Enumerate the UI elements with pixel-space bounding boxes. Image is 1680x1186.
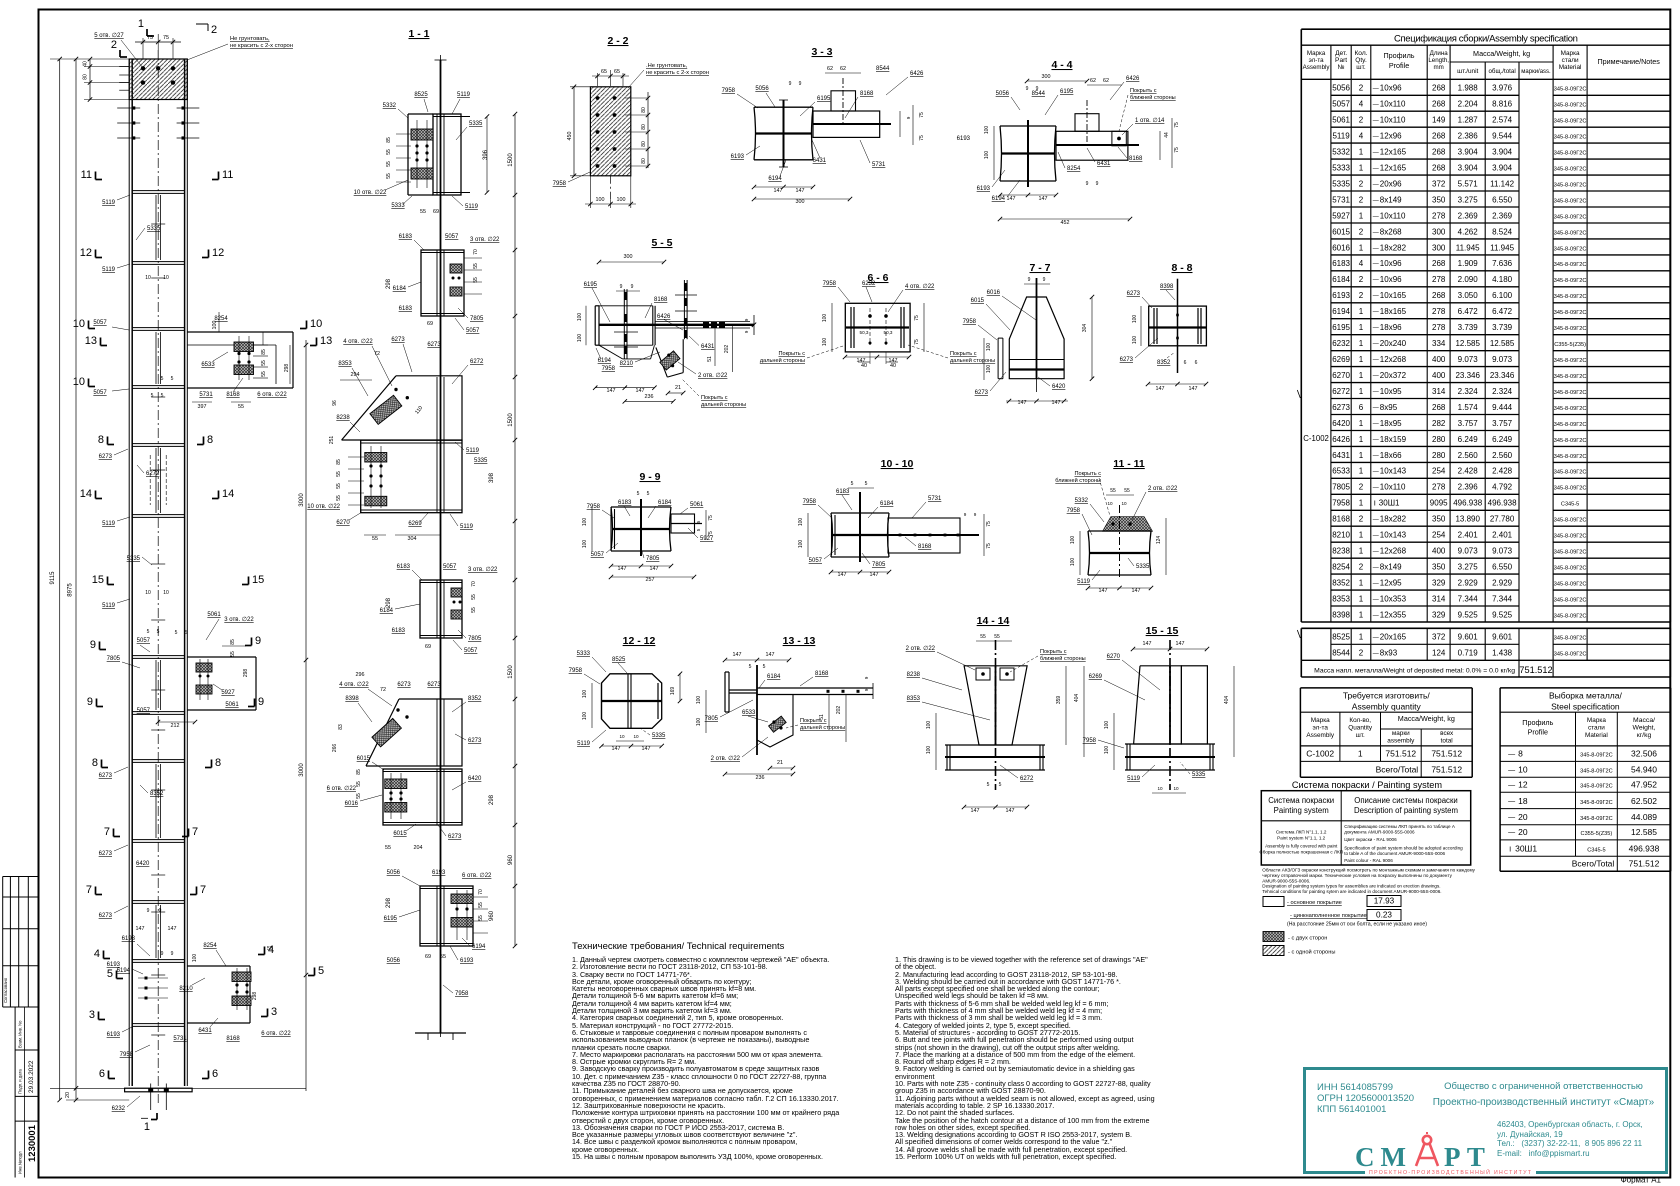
svg-text:С345-5: С345-5 [1587, 847, 1605, 853]
svg-text:30Ш1: 30Ш1 [1515, 843, 1537, 853]
svg-text:—: — [1373, 389, 1379, 395]
svg-text:15: 15 [92, 574, 104, 586]
svg-text:Марка: Марка [1587, 717, 1606, 724]
svg-text:7958: 7958 [823, 281, 837, 287]
svg-text:assembly: assembly [1387, 738, 1415, 745]
svg-text:7958: 7958 [120, 1052, 134, 1058]
svg-text:13.890: 13.890 [1455, 515, 1480, 524]
svg-text:40: 40 [83, 61, 89, 67]
svg-text:дальней стороны: дальней стороны [950, 357, 995, 364]
svg-text:2.401: 2.401 [1458, 531, 1479, 540]
svg-text:3.739: 3.739 [1492, 323, 1513, 332]
svg-text:5119: 5119 [457, 92, 471, 98]
svg-text:1: 1 [1358, 749, 1363, 759]
svg-text:Part: Part [1335, 57, 1347, 64]
svg-text:8168: 8168 [226, 392, 240, 398]
svg-text:96: 96 [332, 400, 338, 406]
svg-text:5057: 5057 [443, 564, 457, 570]
svg-text:147: 147 [1132, 588, 1141, 594]
svg-text:6193: 6193 [122, 936, 136, 942]
svg-text:—: — [1373, 102, 1379, 108]
svg-text:18х165: 18х165 [1380, 307, 1407, 316]
svg-text:12: 12 [212, 247, 224, 259]
svg-text:3.757: 3.757 [1492, 419, 1513, 428]
svg-text:6015: 6015 [1332, 227, 1350, 236]
svg-text:—: — [1373, 278, 1379, 284]
svg-text:6184: 6184 [393, 286, 407, 292]
svg-text:345-8-09Г2С: 345-8-09Г2С [1554, 326, 1587, 332]
svg-text:147: 147 [796, 188, 805, 194]
svg-text:5: 5 [987, 782, 990, 788]
svg-text:6270: 6270 [1107, 654, 1121, 660]
svg-text:345-8-09Г2С: 345-8-09Г2С [1554, 613, 1587, 619]
svg-text:2.386: 2.386 [1458, 132, 1479, 141]
svg-text:Масса/Weight, kg: Масса/Weight, kg [1398, 714, 1455, 723]
svg-text:6193: 6193 [957, 136, 971, 142]
svg-text:55: 55 [372, 536, 378, 542]
svg-text:75: 75 [708, 515, 714, 521]
svg-text:75: 75 [708, 531, 714, 537]
svg-text:9: 9 [1043, 277, 1046, 283]
svg-text:2.428: 2.428 [1492, 467, 1513, 476]
svg-text:- цинкнаполненное покрытие: - цинкнаполненное покрытие [1290, 913, 1367, 919]
svg-text:169: 169 [670, 687, 676, 696]
svg-text:10: 10 [619, 734, 625, 739]
svg-text:9.444: 9.444 [1492, 403, 1513, 412]
svg-text:дальней стороны: дальней стороны [701, 401, 746, 408]
svg-text:75: 75 [919, 112, 925, 118]
svg-text:345-8-09Г2С: 345-8-09Г2С [1554, 119, 1587, 125]
svg-text:1: 1 [1359, 435, 1364, 444]
svg-text:6426: 6426 [910, 71, 924, 77]
svg-text:1: 1 [1359, 467, 1364, 476]
svg-text:1: 1 [1359, 531, 1364, 540]
svg-text:65: 65 [601, 69, 607, 75]
svg-text:147: 147 [733, 652, 742, 658]
svg-text:5057: 5057 [137, 708, 151, 714]
svg-text:5057: 5057 [445, 234, 459, 240]
svg-text:236: 236 [645, 394, 654, 400]
svg-text:6431: 6431 [1332, 451, 1350, 460]
svg-text:266: 266 [332, 744, 338, 753]
svg-text:8254: 8254 [1332, 563, 1350, 572]
svg-text:294: 294 [351, 372, 360, 378]
svg-text:6183: 6183 [399, 306, 413, 312]
svg-text:10х110: 10х110 [1380, 483, 1406, 492]
svg-text:8544: 8544 [876, 66, 890, 72]
svg-text:3.976: 3.976 [1492, 84, 1513, 93]
svg-text:345-8-09Г2С: 345-8-09Г2С [1580, 753, 1613, 759]
svg-text:11: 11 [222, 169, 233, 181]
svg-text:372: 372 [1432, 179, 1446, 188]
svg-text:85: 85 [336, 459, 342, 465]
svg-text:6.249: 6.249 [1492, 435, 1513, 444]
svg-text:3.904: 3.904 [1458, 164, 1479, 173]
svg-text:1: 1 [138, 18, 144, 30]
svg-text:—: — [1373, 485, 1379, 491]
svg-text:8398: 8398 [345, 696, 359, 702]
svg-text:чертежу отправочной марки. Тех: чертежу отправочной марки. Технические у… [1262, 872, 1452, 878]
svg-text:6183: 6183 [1332, 259, 1350, 268]
svg-text:5332: 5332 [1075, 498, 1089, 504]
svg-text:8: 8 [215, 757, 221, 769]
svg-text:3.275: 3.275 [1458, 563, 1479, 572]
svg-text:5: 5 [161, 376, 164, 382]
svg-text:6184: 6184 [767, 674, 781, 680]
svg-text:4.180: 4.180 [1492, 275, 1513, 284]
svg-text:55: 55 [420, 209, 426, 215]
svg-text:75: 75 [919, 135, 925, 141]
svg-text:5057: 5057 [464, 648, 478, 654]
svg-text:80: 80 [641, 124, 647, 130]
svg-text:Tehnical conditions for painti: Tehnical conditions for painting sytem a… [1262, 889, 1441, 894]
svg-text:6272: 6272 [1020, 776, 1034, 782]
svg-text:450: 450 [567, 132, 573, 141]
svg-text:Покрыть с: Покрыть с [950, 351, 977, 357]
svg-text:—: — [1508, 815, 1515, 822]
svg-text:Согласовано: Согласовано [3, 977, 8, 1003]
svg-text:общ./total: общ./total [1488, 68, 1515, 75]
svg-text:345-8-09Г2С: 345-8-09Г2С [1554, 374, 1587, 380]
svg-text:280: 280 [1432, 435, 1446, 444]
svg-text:Описание системы покраски: Описание системы покраски [1354, 796, 1457, 805]
svg-text:55: 55 [336, 483, 342, 489]
svg-text:8168: 8168 [815, 671, 829, 677]
svg-text:5: 5 [175, 630, 178, 636]
svg-text:236: 236 [756, 775, 765, 781]
svg-text:6183: 6183 [397, 564, 411, 570]
svg-text:9.601: 9.601 [1458, 633, 1479, 642]
svg-text:5119: 5119 [460, 524, 474, 530]
svg-text:1: 1 [1359, 164, 1364, 173]
svg-text:8х93: 8х93 [1380, 649, 1398, 658]
svg-text:Paint system N°1.1, 1.2: Paint system N°1.1, 1.2 [1277, 836, 1325, 841]
svg-text:5: 5 [185, 630, 188, 636]
svg-text:12х95: 12х95 [1380, 579, 1402, 588]
svg-text:Система покраски: Система покраски [1268, 796, 1334, 805]
svg-text:Длина: Длина [1430, 50, 1449, 57]
svg-text:400: 400 [1432, 355, 1446, 364]
svg-text:6194: 6194 [472, 944, 486, 950]
svg-text:6193: 6193 [107, 1032, 121, 1038]
svg-text:6.249: 6.249 [1458, 435, 1479, 444]
svg-text:10х165: 10х165 [1380, 291, 1407, 300]
svg-text:Примечание/Notes: Примечание/Notes [1598, 57, 1661, 66]
svg-text:3.904: 3.904 [1458, 148, 1479, 157]
svg-text:212: 212 [171, 723, 180, 729]
svg-text:6426: 6426 [1126, 76, 1140, 82]
svg-text:5: 5 [318, 965, 324, 977]
svg-text:—: — [1373, 565, 1379, 571]
svg-text:100: 100 [582, 712, 588, 721]
svg-text:5335: 5335 [1192, 772, 1206, 778]
svg-text:1500: 1500 [508, 153, 514, 167]
svg-text:55: 55 [478, 902, 484, 908]
svg-text:251: 251 [329, 436, 335, 445]
svg-text:8352: 8352 [468, 696, 482, 702]
svg-text:6273: 6273 [99, 851, 113, 857]
svg-text:9: 9 [147, 908, 150, 914]
svg-text:1230001: 1230001 [27, 1124, 38, 1162]
svg-text:5332: 5332 [1332, 148, 1350, 157]
svg-text:7958: 7958 [587, 504, 601, 510]
svg-text:75: 75 [914, 315, 920, 321]
svg-text:2: 2 [1359, 84, 1364, 93]
svg-text:298: 298 [489, 794, 495, 805]
svg-text:6533: 6533 [1332, 467, 1350, 476]
svg-text:397: 397 [198, 404, 207, 410]
svg-text:2: 2 [1359, 227, 1364, 236]
svg-text:15 - 15: 15 - 15 [1146, 625, 1179, 637]
svg-text:1.574: 1.574 [1458, 403, 1479, 412]
svg-text:6194: 6194 [598, 358, 612, 364]
svg-text:0.719: 0.719 [1458, 649, 1479, 658]
svg-text:100: 100 [582, 540, 588, 549]
svg-text:6015: 6015 [971, 298, 985, 304]
svg-text:Марка: Марка [1311, 717, 1330, 724]
svg-text:4: 4 [1359, 132, 1364, 141]
svg-text:6183: 6183 [392, 628, 406, 634]
svg-text:372: 372 [1432, 633, 1446, 642]
svg-text:11 - 11: 11 - 11 [1113, 458, 1145, 470]
svg-text:55: 55 [386, 173, 392, 179]
svg-text:75: 75 [1174, 147, 1180, 153]
svg-text:7958: 7958 [963, 319, 977, 325]
svg-text:8254: 8254 [203, 943, 217, 949]
svg-text:12х165: 12х165 [1380, 164, 1407, 173]
svg-text:18: 18 [1518, 796, 1528, 806]
svg-text:100: 100 [1132, 315, 1138, 324]
svg-text:50,3: 50,3 [860, 330, 869, 335]
svg-text:9: 9 [90, 639, 96, 651]
svg-text:20: 20 [65, 1092, 71, 1098]
svg-text:751.512: 751.512 [1629, 859, 1660, 869]
svg-text:7958: 7958 [455, 991, 469, 997]
svg-text:50,3: 50,3 [884, 330, 893, 335]
svg-text:6193: 6193 [432, 870, 446, 876]
svg-text:345-8-09Г2С: 345-8-09Г2С [1554, 422, 1587, 428]
svg-text:44.089: 44.089 [1631, 812, 1657, 822]
svg-text:278: 278 [1432, 275, 1446, 284]
svg-text:to table A of the document AMU: to table A of the document AMUR-9000-55S… [1344, 851, 1445, 856]
svg-text:5335: 5335 [147, 226, 161, 232]
svg-text:147: 147 [766, 652, 775, 658]
svg-text:ближней стороны: ближней стороны [1055, 477, 1101, 484]
svg-text:6.550: 6.550 [1492, 195, 1513, 204]
svg-text:—: — [1373, 326, 1379, 332]
svg-text:7.636: 7.636 [1492, 259, 1513, 268]
svg-text:3.904: 3.904 [1492, 148, 1513, 157]
svg-text:350: 350 [1432, 563, 1446, 572]
svg-text:1: 1 [1359, 371, 1364, 380]
svg-text:5057: 5057 [93, 320, 107, 326]
svg-text:6: 6 [1195, 360, 1198, 366]
svg-text:Сборка полностью покрашенная с: Сборка полностью покрашенная с ЛКП [1259, 850, 1343, 855]
svg-text:4 отв. ∅22: 4 отв. ∅22 [905, 283, 935, 290]
svg-text:6273: 6273 [99, 773, 113, 779]
svg-text:—: — [1373, 358, 1379, 364]
svg-text:147: 147 [1039, 196, 1048, 202]
svg-text:—: — [1508, 782, 1515, 789]
svg-text:3.757: 3.757 [1458, 419, 1479, 428]
svg-text:11.142: 11.142 [1490, 179, 1514, 188]
svg-text:Qty.: Qty. [1355, 57, 1367, 64]
svg-text:345-8-09Г2С: 345-8-09Г2С [1554, 135, 1587, 141]
svg-text:278: 278 [1432, 211, 1446, 220]
svg-text:296: 296 [356, 672, 365, 678]
svg-text:2 отв. ∅22: 2 отв. ∅22 [906, 645, 936, 652]
svg-text:шт./unit: шт./unit [1457, 68, 1478, 75]
svg-text:30Ш1: 30Ш1 [1379, 499, 1400, 508]
svg-text:751.512: 751.512 [1431, 749, 1462, 759]
svg-text:9: 9 [1096, 181, 1099, 187]
svg-text:5333: 5333 [577, 651, 591, 657]
svg-text:345-8-09Г2С: 345-8-09Г2С [1554, 198, 1587, 204]
svg-text:7805: 7805 [107, 656, 121, 662]
svg-text:—: — [1373, 214, 1379, 220]
svg-text:Требуется изготовить/: Требуется изготовить/ [1343, 691, 1431, 701]
svg-text:—: — [1508, 751, 1515, 758]
svg-text:4 - 4: 4 - 4 [1051, 59, 1072, 71]
svg-text:268: 268 [1432, 291, 1446, 300]
svg-text:4: 4 [1359, 259, 1364, 268]
svg-text:298: 298 [252, 992, 258, 1001]
svg-text:1: 1 [1359, 594, 1364, 603]
svg-text:2.324: 2.324 [1492, 387, 1513, 396]
svg-text:8238: 8238 [907, 672, 921, 678]
svg-text:75: 75 [914, 339, 920, 345]
svg-text:2.574: 2.574 [1492, 116, 1513, 125]
svg-text:69: 69 [425, 954, 431, 960]
svg-text:1 - 1: 1 - 1 [408, 28, 429, 40]
svg-text:55: 55 [994, 634, 1000, 640]
svg-text:8168: 8168 [860, 91, 874, 97]
svg-text:5057: 5057 [137, 638, 151, 644]
svg-text:1 отв. ∅14: 1 отв. ∅14 [1135, 117, 1165, 124]
svg-text:8238: 8238 [336, 415, 350, 421]
svg-text:27.780: 27.780 [1490, 515, 1515, 524]
svg-text:100: 100 [617, 197, 626, 203]
svg-text:5057: 5057 [1332, 100, 1350, 109]
svg-text:5335: 5335 [474, 458, 488, 464]
svg-text:268: 268 [1432, 164, 1446, 173]
svg-text:8353: 8353 [907, 696, 921, 702]
svg-text:345-8-09Г2С: 345-8-09Г2С [1554, 358, 1587, 364]
svg-text:дальней стороны: дальней стороны [800, 724, 845, 731]
svg-text:100: 100 [926, 746, 932, 755]
svg-text:6195: 6195 [1332, 323, 1350, 332]
svg-text:6193: 6193 [460, 958, 474, 964]
svg-text:2: 2 [1359, 291, 1364, 300]
svg-text:268: 268 [1432, 132, 1446, 141]
svg-text:70: 70 [471, 581, 477, 587]
svg-text:4: 4 [1359, 100, 1364, 109]
svg-text:Steel specification: Steel specification [1551, 702, 1620, 712]
svg-text:20: 20 [1518, 812, 1528, 822]
svg-text:2: 2 [111, 39, 117, 51]
svg-text:6193: 6193 [731, 154, 745, 160]
svg-text:—: — [1373, 517, 1379, 523]
svg-text:147: 147 [889, 358, 898, 364]
svg-text:2: 2 [1359, 563, 1364, 572]
svg-text:5119: 5119 [102, 521, 116, 527]
svg-text:5056: 5056 [387, 958, 401, 964]
svg-text:3000: 3000 [299, 763, 305, 777]
svg-text:9: 9 [1028, 277, 1031, 283]
svg-text:1.287: 1.287 [1458, 116, 1479, 125]
svg-text:100: 100 [986, 343, 992, 352]
svg-text:278: 278 [1432, 323, 1446, 332]
svg-text:Покрыть с: Покрыть с [778, 351, 805, 357]
svg-text:—: — [1373, 230, 1379, 236]
svg-text:6420: 6420 [136, 861, 150, 867]
svg-text:8 - 8: 8 - 8 [1171, 262, 1192, 274]
svg-text:1: 1 [1359, 610, 1364, 619]
svg-text:total: total [1441, 738, 1453, 745]
svg-text:Weight,: Weight, [1633, 725, 1656, 732]
svg-text:9.073: 9.073 [1492, 547, 1513, 556]
svg-text:345-8-09Г2С: 345-8-09Г2С [1554, 652, 1587, 658]
svg-text:5119: 5119 [1077, 579, 1091, 585]
svg-text:100: 100 [984, 126, 990, 135]
svg-text:10: 10 [73, 318, 85, 330]
svg-text:6.100: 6.100 [1492, 291, 1513, 300]
svg-text:100: 100 [986, 365, 992, 374]
svg-text:6195: 6195 [584, 282, 598, 288]
svg-text:2.401: 2.401 [1492, 531, 1513, 540]
svg-text:345-8-09Г2С: 345-8-09Г2С [1554, 214, 1587, 220]
svg-text:Система ЛКП N°1.1, 1.2: Система ЛКП N°1.1, 1.2 [1276, 830, 1327, 835]
svg-text:Формат А1: Формат А1 [1621, 1176, 1662, 1185]
svg-text:2.428: 2.428 [1458, 467, 1479, 476]
svg-text:55: 55 [336, 471, 342, 477]
svg-text:10х110: 10х110 [1380, 116, 1406, 125]
svg-text:6273: 6273 [468, 738, 482, 744]
svg-text:9: 9 [789, 81, 792, 87]
svg-text:(На расстояние 25мм от оси бол: (На расстояние 25мм от оси болта, если н… [1287, 922, 1427, 928]
svg-text:1: 1 [1359, 307, 1364, 316]
svg-text:12.585: 12.585 [1631, 827, 1657, 837]
svg-text:80: 80 [641, 107, 647, 113]
svg-text:9095: 9095 [1430, 499, 1448, 508]
svg-text:Взам. Инв. No: Взам. Инв. No [18, 1020, 23, 1048]
svg-text:—: — [1373, 294, 1379, 300]
svg-text:11.945: 11.945 [1490, 243, 1514, 252]
svg-text:55: 55 [471, 594, 477, 600]
svg-text:Спецификацию системы ЛКП приня: Спецификацию системы ЛКП принять по табл… [1344, 824, 1456, 829]
svg-text:23.346: 23.346 [1455, 371, 1480, 380]
svg-text:6270: 6270 [1332, 371, 1350, 380]
svg-text:Спецификация сборки/Assembly s: Спецификация сборки/Assembly specificati… [1394, 34, 1578, 45]
svg-text:5056: 5056 [387, 870, 401, 876]
svg-text:8398: 8398 [1332, 610, 1350, 619]
svg-text:12.585: 12.585 [1490, 339, 1515, 348]
svg-text:55: 55 [385, 845, 391, 851]
svg-text:9: 9 [1026, 86, 1029, 92]
svg-text:2.090: 2.090 [1458, 275, 1479, 284]
svg-text:100: 100 [984, 151, 990, 160]
svg-text:55: 55 [238, 404, 244, 410]
svg-text:149: 149 [1432, 116, 1446, 125]
svg-text:6273: 6273 [1127, 291, 1141, 297]
svg-text:345-8-09Г2С: 345-8-09Г2С [1554, 518, 1587, 524]
svg-text:3 отв. ∅22: 3 отв. ∅22 [468, 566, 498, 573]
svg-text:5: 5 [151, 393, 154, 399]
svg-text:345-8-09Г2С: 345-8-09Г2С [1554, 438, 1587, 444]
svg-text:5: 5 [637, 491, 640, 497]
svg-text:20х240: 20х240 [1380, 339, 1407, 348]
svg-text:18х159: 18х159 [1380, 435, 1407, 444]
